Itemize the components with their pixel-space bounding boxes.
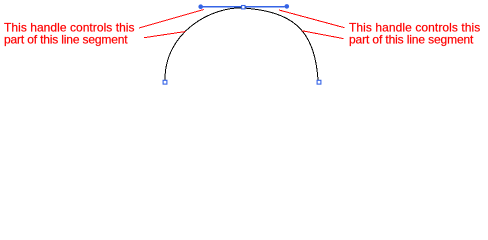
svg-text:part of this line segment: part of this line segment [349,33,474,47]
svg-text:part of this line segment: part of this line segment [4,33,128,47]
